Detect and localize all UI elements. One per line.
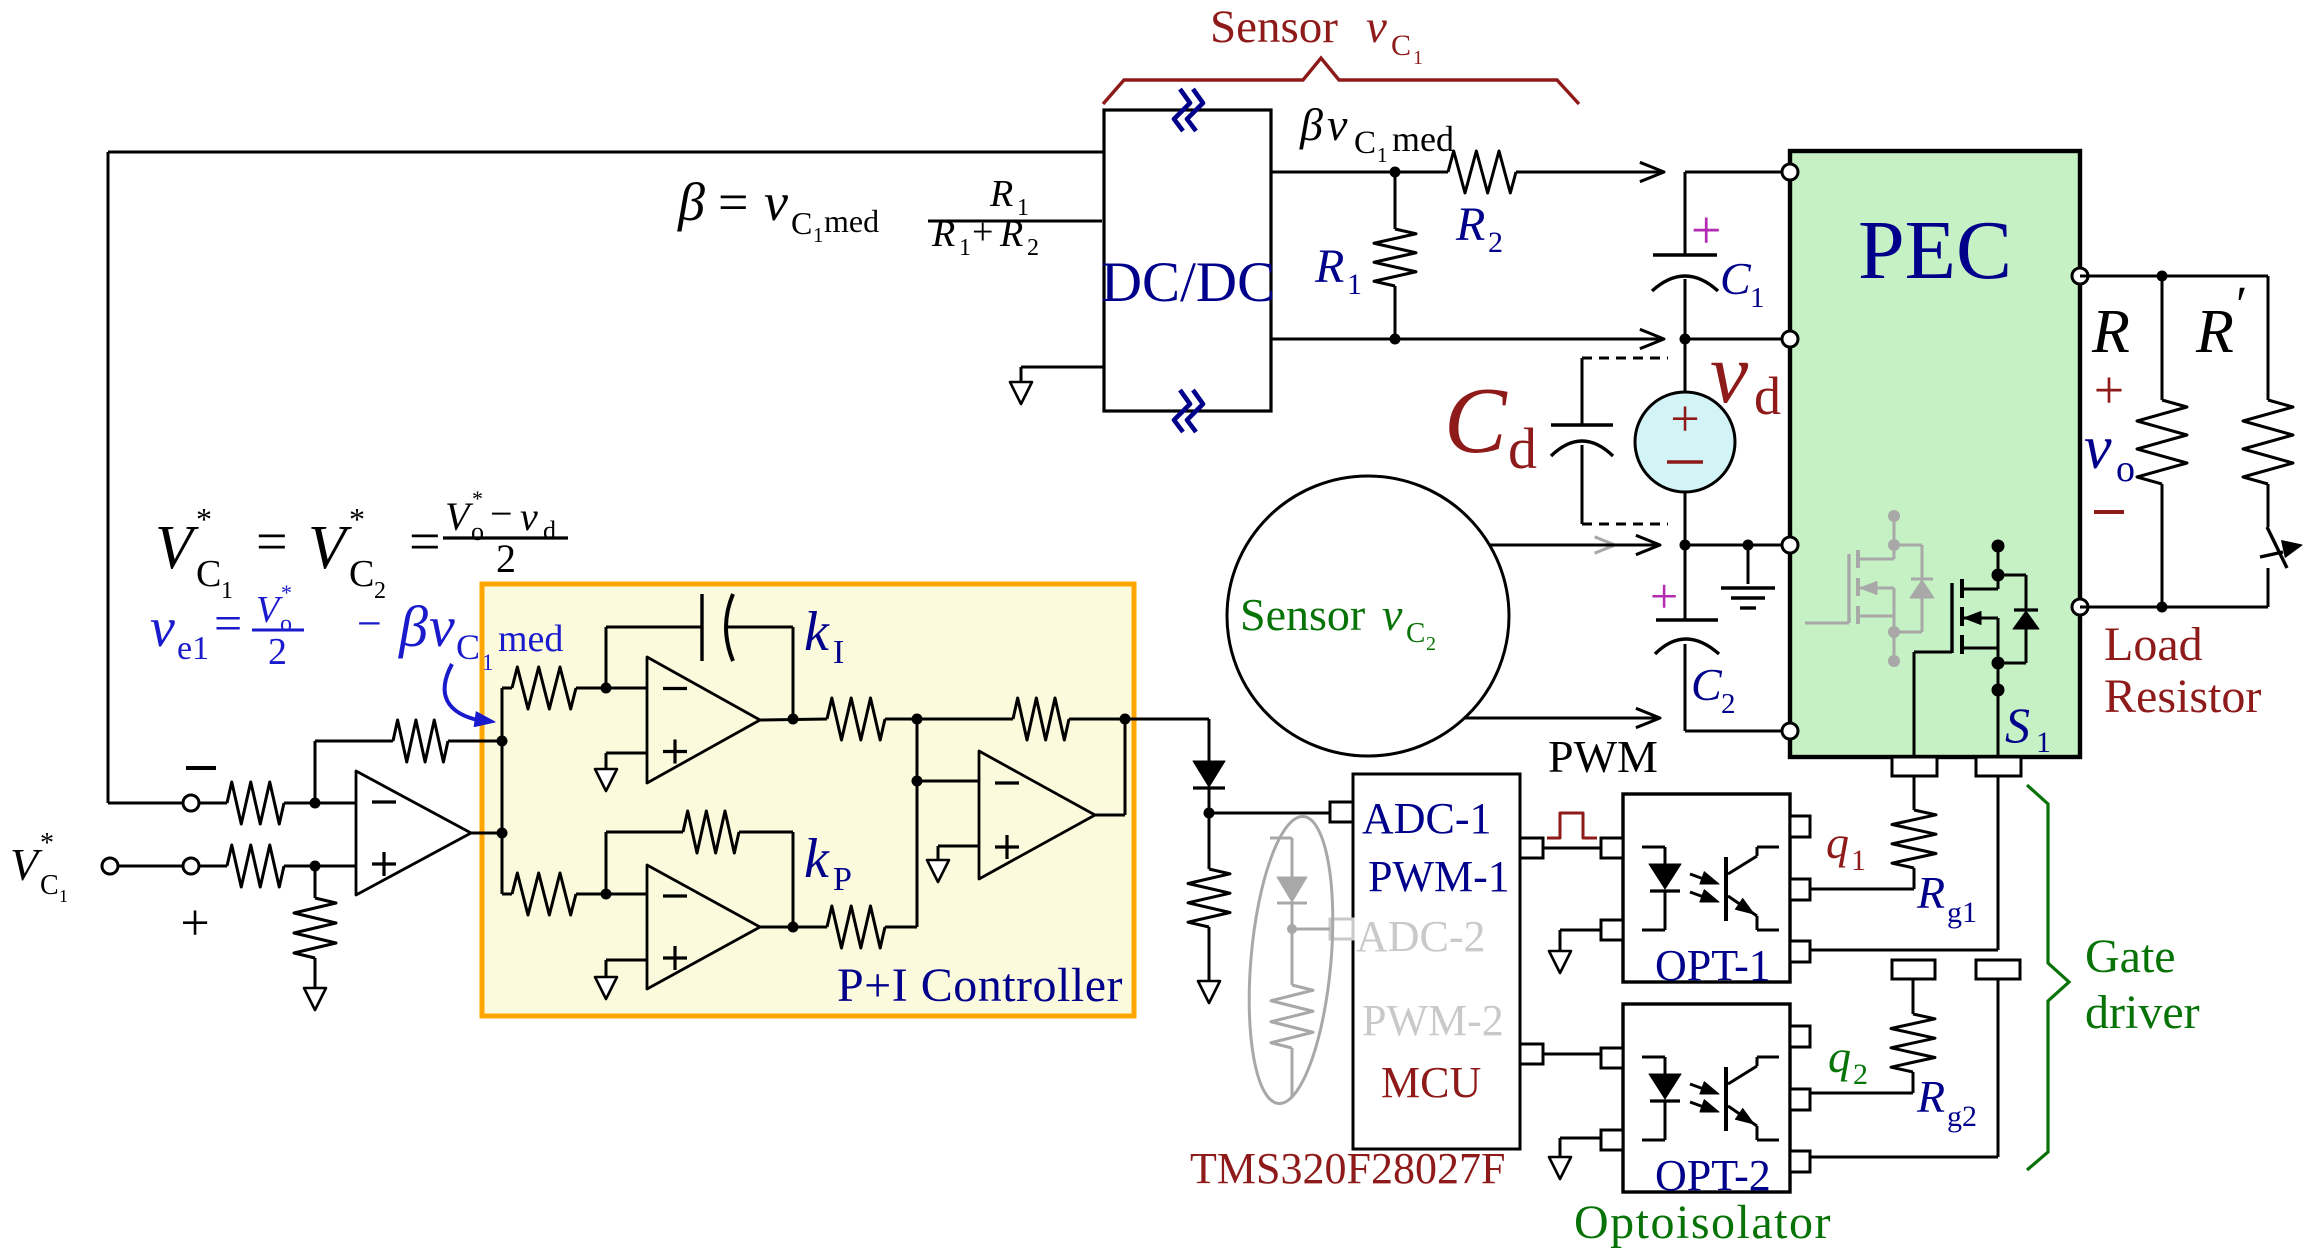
svg-text:TMS320F28027F: TMS320F28027F [1190, 1144, 1505, 1193]
svg-text:+: + [2094, 360, 2124, 420]
capacitor C2 polarized [1655, 545, 1719, 731]
gray alternate sensing ellipse [1239, 813, 1344, 1107]
svg-text:med: med [498, 618, 563, 660]
label Gate driver [2085, 930, 2200, 1039]
svg-text:k: k [804, 828, 830, 890]
wire PWM-2 to OPT-2 [1543, 1053, 1601, 1056]
wire C1 bottom node to PEC [1680, 334, 1791, 345]
node ADC-1 input [1204, 808, 1331, 819]
label q1 [1826, 817, 1866, 877]
svg-text:+: + [180, 895, 209, 952]
label minus vo [2094, 510, 2124, 514]
svg-text:2: 2 [268, 631, 287, 673]
svg-text:P+I Controller: P+I Controller [837, 959, 1123, 1012]
gray remnant arrowhead at mid node [1595, 537, 1615, 553]
svg-text:C: C [196, 553, 221, 595]
svg-text:v: v [520, 494, 538, 539]
svg-text:P: P [833, 861, 852, 898]
capacitor integrator feedback [606, 594, 793, 719]
svg-text:PWM-2: PWM-2 [1362, 996, 1504, 1045]
svg-text:d: d [1754, 366, 1781, 426]
diode controller output [1193, 761, 1225, 813]
svg-text:R: R [931, 213, 955, 255]
svg-text:1: 1 [482, 650, 494, 675]
svg-text:+: + [1650, 568, 1678, 624]
svg-text:2: 2 [1488, 226, 1503, 259]
svg-text:R: R [1916, 867, 1945, 918]
label Sensor vC1 [1210, 1, 1423, 69]
label plus vo [2094, 360, 2124, 420]
label R load [2091, 298, 2130, 366]
wire q1 to OPT-1 [1810, 888, 1914, 891]
optocoupler OPT-2 [1601, 1004, 1810, 1200]
svg-text:*: * [472, 486, 483, 511]
label Cd [1444, 369, 1537, 481]
svg-text:R: R [1916, 1071, 1945, 1122]
wire R2 to C1 node with arrow [1516, 162, 1664, 181]
label VC1 star [10, 828, 68, 906]
svg-text:v: v [1382, 589, 1403, 640]
ground integrator plus input [595, 753, 647, 791]
svg-text:R: R [2091, 298, 2130, 366]
svg-text:2: 2 [1721, 688, 1736, 720]
op-amp summer [979, 751, 1095, 879]
label Load Resistor [2104, 618, 2261, 723]
svg-text:v: v [1710, 325, 1749, 421]
label kI [804, 601, 844, 671]
ground at DC/DC input return [1010, 367, 1104, 404]
resistor ref to ground [294, 866, 336, 988]
svg-text:g1: g1 [1947, 896, 1977, 929]
box P+I controller [482, 584, 1134, 1016]
svg-text:β: β [398, 594, 428, 659]
terminal error amp minus input [183, 795, 199, 811]
polarity plus of C1 [1691, 200, 1721, 260]
svg-text:R: R [999, 213, 1023, 255]
svg-text:OPT-2: OPT-2 [1655, 1151, 1771, 1200]
gray diode to ADC-2 [1270, 838, 1307, 929]
formula ve1 = Vo/2 - beta vC1med [150, 580, 563, 675]
svg-text:ADC-2: ADC-2 [1356, 912, 1486, 961]
switch in Rprime branch [2260, 527, 2302, 607]
terminal PEC left mid [1782, 537, 1798, 553]
terminal S1 gate pad [1892, 757, 1937, 776]
wire R1 stubs [1394, 172, 1397, 339]
label Rg2 [1916, 1071, 1977, 1133]
wire PWM-1 to OPT-1 [1543, 847, 1601, 850]
svg-text:Sensor: Sensor [1240, 589, 1365, 640]
svg-text:1: 1 [1750, 282, 1765, 314]
gray pulldown resistor [1271, 929, 1313, 1098]
label MCU [1381, 1058, 1481, 1107]
svg-text:q: q [1826, 817, 1849, 868]
svg-text:R: R [1314, 240, 1344, 293]
svg-text:med: med [824, 203, 879, 239]
wire vd bottom [1684, 492, 1687, 545]
svg-text:v: v [764, 172, 788, 232]
ground below ref resistor [304, 988, 326, 1010]
block DC/DC sensor isolation [1101, 110, 1275, 411]
resistor proportional to summer [827, 906, 885, 948]
svg-text:′: ′ [2236, 277, 2247, 334]
svg-text:PWM: PWM [1548, 731, 1658, 782]
ground below pulldown [1198, 981, 1220, 1003]
svg-text:C: C [349, 553, 374, 595]
wire controller output to MCU [1125, 719, 1209, 761]
transistor S2 (inactive, gray) with body diode [1805, 510, 1934, 667]
wire C1 top corner [1685, 172, 1790, 255]
svg-text:1: 1 [813, 223, 824, 247]
svg-text:OPT-1: OPT-1 [1655, 941, 1771, 990]
resistor integrator to summer [827, 698, 1013, 740]
svg-text:1: 1 [1347, 268, 1362, 301]
svg-text:1: 1 [1377, 143, 1388, 167]
svg-text:v: v [1366, 1, 1387, 53]
wire top feedback from sensor output to error amp (top run) [108, 152, 1104, 803]
node summer inverting bus [885, 719, 979, 927]
svg-text:Resistor: Resistor [2104, 670, 2261, 723]
ground proportional plus input [595, 960, 647, 999]
node junction bottom output [1390, 334, 1401, 345]
svg-text:d: d [1508, 416, 1537, 481]
label ADC-2 [1356, 912, 1486, 961]
formula VC1star = VC2star = (Vo-vd)/2 [155, 486, 568, 604]
feedback resistor error amp [315, 720, 502, 803]
resistor Rg1 [1892, 776, 1936, 889]
wire q2 to OPT-2 [1810, 1092, 1913, 1095]
wire DC/DC bottom output [1271, 329, 1664, 348]
svg-text:2: 2 [1027, 235, 1039, 261]
transistor S1 (active switch) with body diode [1914, 540, 2039, 758]
svg-text:=: = [256, 511, 288, 573]
svg-text:PWM-1: PWM-1 [1368, 852, 1510, 901]
label PWM-2 [1362, 996, 1504, 1045]
ground OPT-2 cathode [1549, 1138, 1601, 1179]
label TMS320F28027F [1190, 1144, 1505, 1193]
label plus at ref input [180, 895, 209, 952]
svg-text:med: med [1392, 119, 1454, 159]
label beta vC1med on sensor output [1299, 99, 1454, 167]
svg-text:−: − [490, 491, 513, 536]
svg-text:+: + [1670, 391, 1699, 448]
formula beta = vC1med R1/(R1+R2) [677, 172, 1102, 261]
label ADC-1 [1362, 794, 1492, 843]
pin PWM-2 [1520, 1044, 1543, 1064]
block PEC (power electronics converter) [1790, 151, 2080, 757]
wire load bottom rail [2080, 602, 2268, 613]
terminal PEC right top [2072, 268, 2088, 284]
label Optoisolator [1574, 1196, 1832, 1249]
svg-text:Sensor: Sensor [1210, 1, 1338, 53]
svg-text:e1: e1 [177, 630, 209, 667]
arrow sensor vC2 to bottom node [1465, 708, 1660, 727]
svg-text:o: o [2116, 448, 2135, 490]
label C2 [1691, 659, 1736, 720]
terminal VC1 ref input [102, 858, 199, 874]
optocoupler OPT-1 [1601, 794, 1810, 990]
svg-text:I: I [833, 634, 844, 671]
wire vd top [1684, 339, 1687, 392]
svg-text:2: 2 [1853, 1058, 1868, 1091]
svg-text:d: d [543, 516, 556, 545]
block MCU [1353, 774, 1520, 1149]
svg-text:*: * [196, 501, 212, 537]
resistor summer feedback [1013, 698, 1131, 740]
label S1 [2005, 697, 2051, 759]
svg-text:v: v [150, 597, 175, 659]
label P+I Controller [837, 959, 1123, 1012]
label vd [1710, 325, 1781, 426]
svg-text:β: β [1299, 99, 1323, 150]
svg-text:C: C [1406, 617, 1425, 649]
wire summer output [1095, 719, 1125, 815]
svg-text:C: C [1444, 369, 1508, 473]
label Rg1 [1916, 867, 1977, 929]
label Sensor vC2 [1240, 589, 1436, 655]
label Rprime [2195, 277, 2247, 366]
svg-text:R: R [1455, 198, 1485, 251]
svg-text:=: = [409, 511, 441, 573]
svg-text:C: C [1720, 253, 1752, 304]
svg-text:PEC: PEC [1858, 204, 2012, 297]
svg-text:MCU: MCU [1381, 1058, 1481, 1107]
polarity plus of C2 [1650, 568, 1678, 624]
terminal S2 gate pad [1892, 960, 1935, 979]
wire DC/DC top output [1271, 171, 1448, 174]
resistor kP feedback [606, 811, 793, 927]
svg-text:2: 2 [1426, 633, 1436, 655]
svg-text:*: * [40, 828, 54, 859]
arrow sensor vC2 to top node [1489, 535, 1660, 554]
pin ADC-2 gray [1330, 919, 1353, 939]
node bus error voltage [497, 688, 508, 894]
svg-text:1: 1 [1413, 47, 1423, 69]
svg-text:C: C [456, 627, 480, 667]
svg-text:V: V [155, 514, 199, 582]
op-amp error amplifier [356, 771, 471, 895]
svg-text:Load: Load [2104, 618, 2203, 671]
label C1 [1720, 253, 1765, 314]
pin ADC-1 [1330, 802, 1353, 822]
svg-text:C: C [1691, 659, 1723, 710]
resistor pulldown at ADC-1 [1188, 813, 1230, 981]
sensor vC2 ellipse [1227, 476, 1509, 756]
svg-text:V: V [10, 839, 43, 890]
svg-text:β: β [677, 172, 705, 232]
wire C2 bottom to PEC [1685, 730, 1790, 733]
label kP [804, 828, 852, 898]
svg-text:=: = [718, 172, 748, 232]
svg-text:1: 1 [1851, 844, 1866, 877]
svg-text:q: q [1828, 1031, 1851, 1082]
svg-text:S: S [2005, 697, 2030, 753]
arrow ve1 to summing node [445, 664, 495, 727]
resistor R load [2137, 276, 2187, 607]
op-amp integrator [647, 657, 760, 783]
svg-text:V: V [308, 514, 352, 582]
svg-text:k: k [804, 601, 830, 663]
svg-text:g2: g2 [1947, 1100, 1977, 1133]
pwm pulse glyph [1547, 813, 1597, 838]
brace Sensor vC1 span [1103, 58, 1579, 104]
svg-text:=: = [214, 595, 242, 651]
wire error amp output [471, 832, 502, 835]
terminal PEC left bottom [1782, 723, 1798, 739]
resistor kP input [502, 873, 647, 915]
resistor ref input [199, 845, 356, 887]
svg-text:C: C [1391, 29, 1411, 62]
svg-text:C: C [40, 870, 59, 901]
label R1 [1314, 240, 1362, 301]
node junction top output [1390, 167, 1401, 178]
wire S1 source return [1810, 776, 1998, 950]
wire proportional output [760, 922, 827, 933]
svg-text:2: 2 [496, 536, 516, 581]
svg-text:V: V [256, 589, 283, 631]
terminal PEC right bottom [2072, 599, 2088, 615]
svg-text:1: 1 [59, 886, 68, 906]
label q2 [1828, 1031, 1868, 1091]
wire mid node row [1680, 540, 1791, 551]
terminal S1 source pad [1976, 757, 2021, 776]
svg-text:v: v [429, 594, 455, 659]
ground OPT-1 cathode [1549, 930, 1601, 973]
terminal PEC left second [1782, 331, 1798, 347]
svg-text:ADC-1: ADC-1 [1362, 794, 1492, 843]
label PWM [1548, 731, 1658, 782]
gap squiggle top of DC/DC [1174, 89, 1203, 131]
svg-text:*: * [281, 580, 292, 605]
op-amp proportional [647, 865, 760, 989]
gray wire to ADC-2 pin [1287, 924, 1330, 934]
wire load top rail [2080, 271, 2268, 282]
svg-text:Optoisolator: Optoisolator [1574, 1196, 1832, 1249]
brace gate driver [2027, 785, 2069, 1170]
svg-text:R: R [2195, 298, 2234, 366]
resistor R2 [1448, 151, 1516, 193]
svg-text:driver: driver [2085, 986, 2200, 1039]
label vo [2084, 414, 2135, 490]
label R2 [1455, 198, 1503, 259]
svg-text:v: v [1327, 99, 1348, 150]
resistor integrator input [502, 667, 647, 709]
svg-text:+: + [972, 211, 993, 253]
svg-text:*: * [349, 501, 365, 537]
pin PWM-1 [1520, 838, 1543, 858]
svg-text:C: C [1354, 125, 1376, 161]
wire integrator output [760, 714, 827, 725]
capacitor C1 polarized [1652, 255, 1718, 339]
svg-text:o: o [471, 517, 484, 546]
svg-text:DC/DC: DC/DC [1101, 251, 1275, 314]
label PWM-1 [1368, 852, 1510, 901]
resistor Rprime [2243, 276, 2293, 527]
svg-text:+: + [1691, 200, 1721, 260]
gap squiggle bottom of DC/DC [1174, 390, 1203, 432]
ground summer plus input [927, 846, 979, 882]
resistor R1 [1374, 229, 1416, 286]
ground at PEC mid node [1721, 545, 1775, 608]
capacitor Cd with dashed connections [1551, 358, 1668, 524]
resistor Rg2 [1891, 979, 1935, 1093]
svg-text:v: v [2084, 414, 2112, 482]
wire S2 source return [1810, 979, 1998, 1157]
svg-text:R: R [989, 173, 1013, 215]
svg-text:Gate: Gate [2085, 930, 2176, 983]
label minus at error input [186, 766, 216, 770]
svg-text:1: 1 [2036, 726, 2051, 759]
svg-text:−: − [357, 599, 382, 648]
svg-text:1: 1 [959, 235, 971, 261]
terminal PEC left top [1782, 164, 1798, 180]
source vd (disturbance voltage source) [1635, 391, 1735, 492]
resistor error minus input [199, 782, 356, 824]
svg-text:C: C [791, 205, 812, 241]
terminal S2 source pad [1976, 960, 2020, 979]
